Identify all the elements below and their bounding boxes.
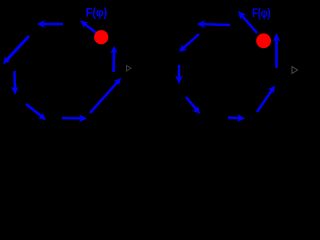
left cycle: arrow E3 left vertical (pointing down) (11, 71, 19, 95)
left cycle: arrow E1 top (pointing left) (37, 20, 63, 28)
svg-text:F(φ): F(φ) (252, 8, 271, 20)
left marked point (red dot) (94, 30, 108, 44)
left cycle: arrow E6 lower-right diagonal (pointing up-right) (90, 78, 121, 113)
left cycle: arrow E4 lower-left diagonal (pointing down-right) (26, 104, 46, 120)
right cycle: arrow E4 lower-left diagonal (pointing down-right) (186, 97, 200, 114)
svg-text:F(φ): F(φ) (86, 8, 108, 20)
left cycle: arrow E7 right vertical (pointing up) (110, 46, 118, 72)
right cycle: arrow E6 lower-right diagonal (pointing up-right) (257, 86, 275, 113)
right cycle: arrow E7 right vertical (pointing up) (273, 33, 280, 68)
right cycle: arrow E2 upper-left diagonal (pointing down-left) (179, 34, 199, 52)
right marked point (red dot) (256, 33, 271, 48)
right cycle: arrow E8 from marked point (pointing up-left) (238, 11, 257, 33)
left faint cursor mark (127, 66, 132, 72)
left cycle: arrow E2 upper-left diagonal (pointing down-left) (3, 36, 29, 64)
right cycle: arrow E1 top (pointing left) (197, 20, 230, 28)
right cycle: arrow E3 left vertical (pointing down) (175, 65, 183, 84)
right faint cursor mark (292, 67, 298, 74)
left cycle: arrow E8 from marked point (pointing up-left) (80, 21, 99, 36)
right cycle: arrow E5 bottom (pointing right) (228, 114, 245, 122)
left cycle: arrow E5 bottom (pointing right) (62, 114, 87, 122)
